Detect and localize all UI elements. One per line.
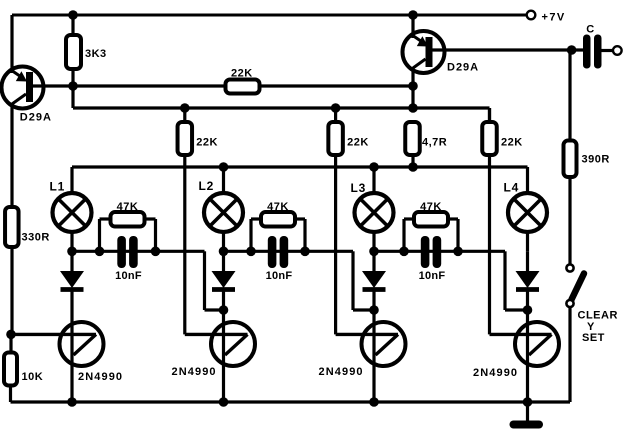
svg-text:CLEAR: CLEAR: [578, 310, 618, 322]
svg-text:22K: 22K: [231, 68, 253, 80]
svg-text:390R: 390R: [582, 154, 610, 166]
svg-text:SET: SET: [582, 332, 605, 344]
svg-text:+7V: +7V: [542, 12, 566, 24]
svg-text:10nF: 10nF: [419, 270, 446, 282]
svg-text:L4: L4: [504, 181, 520, 195]
svg-text:2N4990: 2N4990: [473, 367, 518, 379]
svg-text:2N4990: 2N4990: [319, 366, 364, 378]
svg-text:D29A: D29A: [20, 112, 52, 124]
svg-text:22K: 22K: [501, 137, 523, 149]
svg-text:D29A: D29A: [447, 62, 479, 74]
svg-text:C: C: [586, 24, 594, 36]
svg-text:10nF: 10nF: [115, 270, 142, 282]
svg-text:330R: 330R: [22, 232, 50, 244]
svg-text:10K: 10K: [22, 371, 44, 383]
svg-text:22K: 22K: [196, 137, 218, 149]
svg-text:10nF: 10nF: [266, 270, 293, 282]
svg-text:2N4990: 2N4990: [78, 371, 123, 383]
svg-text:L3: L3: [351, 181, 367, 195]
svg-text:47K: 47K: [117, 201, 139, 213]
svg-text:2N4990: 2N4990: [172, 366, 217, 378]
svg-text:22K: 22K: [347, 137, 369, 149]
svg-text:L2: L2: [199, 179, 215, 193]
svg-text:3K3: 3K3: [85, 48, 107, 60]
svg-text:47K: 47K: [420, 201, 442, 213]
svg-text:4,7R: 4,7R: [422, 137, 447, 149]
svg-text:L1: L1: [50, 180, 66, 194]
svg-text:47K: 47K: [267, 201, 289, 213]
